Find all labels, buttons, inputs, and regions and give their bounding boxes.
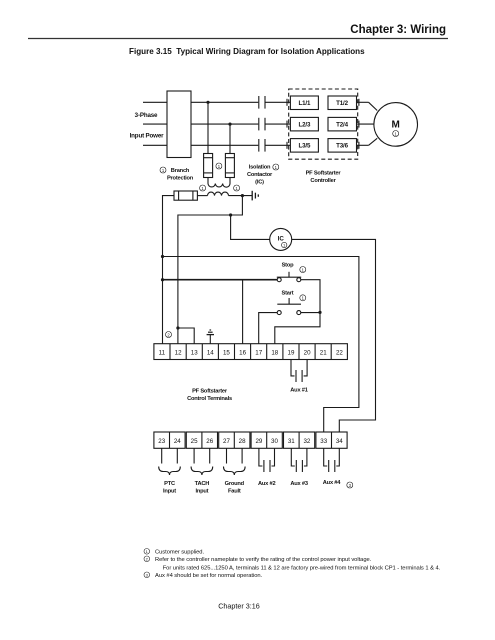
- note 1 circle isolation contactor: [273, 164, 279, 170]
- svg-text:Contactor: Contactor: [247, 172, 273, 178]
- transformer secondary: [208, 192, 229, 195]
- note 1 circle start: [300, 295, 306, 301]
- fuse F2: [225, 154, 234, 178]
- note 2 circle: [166, 332, 172, 338]
- branch protection box: [167, 91, 191, 158]
- svg-text:18: 18: [271, 349, 278, 356]
- wire IC coil to t34: [292, 239, 376, 432]
- contactor IC pole 1: [259, 96, 265, 109]
- svg-text:1: 1: [283, 244, 285, 248]
- svg-text:(IC): (IC): [255, 180, 264, 186]
- wire line1 to L1/1: [265, 101, 290, 103]
- terminal strip 2: [154, 432, 347, 448]
- terminal box L2/3: [290, 117, 318, 130]
- svg-text:22: 22: [336, 349, 343, 356]
- svg-text:Branch: Branch: [171, 168, 190, 174]
- ground chassis right: [252, 191, 258, 201]
- svg-text:20: 20: [304, 349, 311, 356]
- svg-text:Start: Start: [282, 291, 294, 297]
- terminal box T2/4: [328, 117, 357, 130]
- svg-text:PTC: PTC: [164, 481, 175, 487]
- svg-text:T1/2: T1/2: [336, 100, 348, 107]
- terminal box L1/1: [290, 96, 318, 110]
- svg-text:L3/5: L3/5: [299, 143, 311, 150]
- ground symbol t14: [207, 330, 214, 344]
- junction dot phase2: [228, 123, 231, 126]
- svg-text:1: 1: [218, 164, 221, 169]
- svg-text:Chapter 3:16: Chapter 3:16: [218, 602, 260, 611]
- svg-text:Input: Input: [195, 488, 208, 494]
- svg-text:1: 1: [395, 131, 398, 136]
- svg-text:27: 27: [223, 438, 230, 445]
- wire seal to t18: [275, 312, 320, 343]
- note 1 circle secondary right: [234, 185, 240, 191]
- svg-text:Figure 3.15 Typical Wiring Di: Figure 3.15 Typical Wiring Diagram for I…: [129, 47, 365, 56]
- aux 3 contact: [291, 448, 307, 472]
- svg-text:IC: IC: [278, 236, 285, 243]
- svg-text:34: 34: [336, 438, 343, 445]
- svg-text:Aux #4 should be set for norma: Aux #4 should be set for normal operatio…: [155, 573, 263, 579]
- junction dot seal: [318, 311, 321, 314]
- wire line3 to L3/5: [265, 144, 290, 146]
- wire jumper to t13: [178, 328, 194, 344]
- svg-text:2: 2: [146, 557, 149, 562]
- svg-text:Aux #3: Aux #3: [290, 481, 307, 487]
- svg-text:28: 28: [239, 438, 246, 445]
- wire drop to fuse 1: [207, 102, 209, 153]
- svg-text:3: 3: [146, 573, 149, 578]
- svg-text:13: 13: [191, 349, 198, 356]
- svg-text:Chapter 3: Wiring: Chapter 3: Wiring: [350, 24, 446, 36]
- svg-text:15: 15: [223, 349, 230, 356]
- svg-text:Aux #1: Aux #1: [290, 388, 307, 394]
- wire to IC coil: [231, 215, 270, 239]
- svg-text:31: 31: [288, 438, 295, 445]
- wire T1/2 to motor: [357, 99, 378, 111]
- wire phase line 2 left: [143, 123, 167, 125]
- wire line2 to L2/3: [265, 123, 290, 125]
- note 1 circle branch: [160, 167, 166, 173]
- wire stop rail: [163, 279, 278, 281]
- svg-text:Input: Input: [163, 488, 176, 494]
- aux 1 contact: [291, 360, 307, 383]
- svg-text:2: 2: [167, 332, 170, 337]
- svg-text:30: 30: [271, 438, 278, 445]
- svg-text:Aux #2: Aux #2: [258, 481, 275, 487]
- svg-text:17: 17: [255, 349, 262, 356]
- wire stop to seal corner: [301, 280, 320, 313]
- fuse F1: [204, 154, 213, 178]
- svg-text:24: 24: [174, 438, 181, 445]
- footnote 2: [144, 556, 150, 562]
- control fuse: [174, 191, 197, 200]
- junction dot t12-t13 jumper: [176, 326, 179, 329]
- svg-text:Ground: Ground: [225, 481, 245, 487]
- svg-text:33: 33: [320, 438, 327, 445]
- svg-text:3-Phase: 3-Phase: [135, 112, 158, 119]
- wire phase line 1 left: [143, 101, 167, 103]
- svg-text:14: 14: [207, 349, 214, 356]
- wire T2/4 to motor: [357, 121, 374, 128]
- footnote 3: [144, 572, 150, 578]
- svg-text:Isolation: Isolation: [249, 165, 271, 171]
- motor M: [374, 103, 418, 147]
- wire secondary right to ground: [229, 195, 252, 197]
- wire fuse left to rail: [163, 196, 175, 344]
- start pushbutton NO: [277, 298, 301, 315]
- junction dot secondary tap: [241, 194, 244, 197]
- svg-text:3: 3: [349, 483, 352, 488]
- svg-text:23: 23: [158, 438, 165, 445]
- svg-text:Control Terminals: Control Terminals: [187, 396, 232, 402]
- wire phase line 2 right of box: [191, 123, 258, 125]
- svg-text:Protection: Protection: [167, 176, 194, 182]
- svg-text:PF Softstarter: PF Softstarter: [306, 170, 342, 176]
- svg-text:M: M: [392, 120, 400, 131]
- wire phase line 3 left: [143, 144, 167, 146]
- svg-text:16: 16: [239, 349, 246, 356]
- wire phase line 1 right of box: [191, 101, 258, 103]
- terminal box T1/2: [328, 96, 357, 110]
- svg-text:Customer supplied.: Customer supplied.: [155, 549, 204, 555]
- svg-text:1: 1: [302, 296, 305, 301]
- svg-text:Fault: Fault: [228, 488, 241, 494]
- svg-text:25: 25: [191, 438, 198, 445]
- note 1 circle fuses: [216, 163, 222, 169]
- svg-text:21: 21: [320, 349, 327, 356]
- svg-text:Stop: Stop: [282, 262, 295, 268]
- wire tap down and left: [178, 196, 243, 344]
- svg-text:PF Softstarter: PF Softstarter: [192, 389, 228, 395]
- wire drop to fuse 2: [229, 124, 231, 153]
- terminal box T3/6: [328, 139, 357, 153]
- wire drop to t16: [242, 280, 244, 344]
- aux 2 contact: [259, 448, 275, 472]
- svg-text:L2/3: L2/3: [299, 122, 311, 129]
- ground fault leads and brace: [224, 448, 246, 475]
- svg-text:Refer to the controller namepl: Refer to the controller nameplate to ver…: [155, 557, 372, 563]
- wire phase line 3 right of box: [191, 144, 258, 146]
- junction dot left rail aux rail: [161, 255, 164, 258]
- contactor IC pole 3: [259, 139, 265, 152]
- svg-text:1: 1: [146, 549, 149, 554]
- terminal tick L2/3: [286, 121, 288, 128]
- wire start right: [301, 312, 320, 314]
- wire start left to t17: [259, 313, 278, 344]
- note 3 circle aux4: [347, 482, 353, 488]
- ptc input leads and brace: [159, 448, 181, 475]
- svg-text:For units rated 625...1250 A,: For units rated 625...1250 A, terminals …: [163, 565, 441, 571]
- terminal box L3/5: [290, 139, 318, 153]
- svg-text:1: 1: [235, 186, 238, 191]
- svg-text:32: 32: [303, 438, 310, 445]
- contactor IC pole 2: [259, 118, 265, 131]
- svg-text:L1/1: L1/1: [299, 100, 311, 107]
- svg-text:26: 26: [206, 438, 213, 445]
- tach input leads and brace: [191, 448, 213, 475]
- svg-text:19: 19: [288, 349, 295, 356]
- svg-text:Input Power: Input Power: [130, 132, 164, 139]
- svg-text:29: 29: [255, 438, 262, 445]
- svg-text:T3/6: T3/6: [336, 143, 348, 150]
- svg-text:11: 11: [159, 349, 166, 356]
- junction dot phase1: [206, 101, 209, 104]
- svg-text:1: 1: [275, 165, 278, 170]
- svg-text:1: 1: [302, 267, 305, 272]
- header rule: [28, 38, 448, 40]
- svg-text:TACH: TACH: [195, 481, 210, 487]
- note 1 circle stop: [300, 267, 306, 273]
- terminal tick L1/1: [286, 99, 288, 106]
- svg-text:Aux #4: Aux #4: [323, 480, 341, 486]
- transformer primary: [208, 178, 230, 188]
- terminal tick L3/5: [286, 142, 288, 149]
- svg-text:1: 1: [201, 186, 204, 191]
- note 1 circle secondary left: [200, 185, 206, 191]
- svg-text:T2/4: T2/4: [336, 122, 348, 129]
- PF controller dashed box: [289, 89, 358, 159]
- footnote 1: [144, 549, 150, 555]
- svg-text:12: 12: [175, 349, 182, 356]
- junction dot coil branch: [229, 213, 232, 216]
- terminal strip 1: [154, 344, 348, 360]
- wire T3/6 to motor: [357, 138, 378, 149]
- aux 4 contact: [324, 448, 340, 472]
- junction dot stop rail: [161, 278, 164, 281]
- stop pushbutton NC: [277, 272, 301, 282]
- wire fuse to secondary: [197, 195, 207, 197]
- svg-text:Controller: Controller: [310, 178, 336, 184]
- svg-text:1: 1: [162, 168, 165, 173]
- coil IC: [270, 228, 292, 250]
- wire aux rail to t33: [163, 257, 359, 433]
